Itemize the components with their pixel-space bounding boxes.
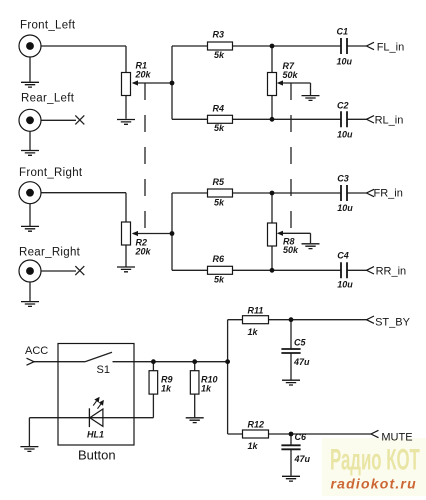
svg-text:5k: 5k [214,50,225,60]
svg-text:10u: 10u [337,57,353,67]
svg-text:ST_BY: ST_BY [375,316,411,328]
svg-text:MUTE: MUTE [381,431,412,443]
svg-text:R11: R11 [248,306,264,316]
svg-text:10u: 10u [337,280,353,290]
svg-text:Радио КОТ: Радио КОТ [330,444,420,477]
svg-text:50k: 50k [283,70,299,80]
svg-text:C5: C5 [294,338,306,348]
svg-text:5k: 5k [214,123,225,133]
svg-text:Button: Button [78,448,116,463]
svg-text:1k: 1k [248,441,259,451]
svg-text:S1: S1 [97,364,110,376]
svg-text:FR_in: FR_in [374,188,403,200]
svg-text:1k: 1k [248,327,259,337]
svg-text:20k: 20k [135,247,152,257]
svg-text:RL_in: RL_in [375,115,404,127]
svg-text:R3: R3 [213,30,225,40]
svg-text:R12: R12 [248,420,265,430]
svg-text:47u: 47u [293,357,310,367]
svg-text:C6: C6 [295,432,307,442]
svg-text:C2: C2 [337,101,349,111]
svg-text:radiokot.ru: radiokot.ru [331,476,417,492]
svg-text:RR_in: RR_in [376,266,407,278]
svg-text:Rear_Left: Rear_Left [21,93,75,105]
svg-text:C4: C4 [337,251,349,261]
svg-text:5k: 5k [214,198,225,208]
svg-text:R6: R6 [213,254,225,264]
svg-text:C1: C1 [337,27,349,37]
svg-text:R4: R4 [213,103,225,113]
svg-text:1k: 1k [201,384,212,394]
svg-text:1k: 1k [161,384,172,394]
svg-text:Front_Left: Front_Left [20,19,76,31]
svg-text:10u: 10u [337,203,353,213]
svg-text:Rear_Right: Rear_Right [19,247,81,259]
svg-text:50k: 50k [283,245,299,255]
svg-text:Front_Right: Front_Right [19,167,83,179]
svg-text:5k: 5k [214,275,225,285]
svg-text:10u: 10u [337,129,353,139]
svg-text:R5: R5 [213,177,225,187]
svg-text:C3: C3 [337,173,349,183]
svg-text:ACC: ACC [25,345,48,357]
svg-text:FL_in: FL_in [377,42,405,54]
svg-text:47u: 47u [294,454,311,464]
svg-text:HL1: HL1 [87,430,104,440]
svg-text:20k: 20k [135,70,152,80]
